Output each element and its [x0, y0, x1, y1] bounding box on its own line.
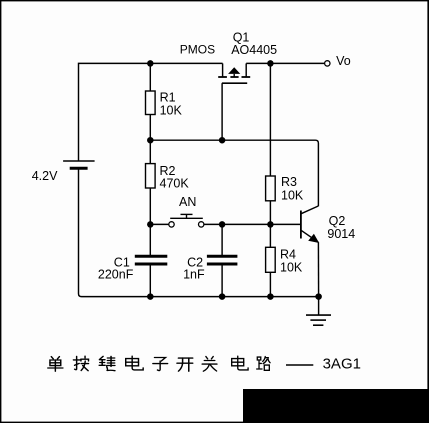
svg-text:PMOS: PMOS	[180, 43, 215, 57]
svg-text:1nF: 1nF	[183, 268, 205, 282]
svg-text:3AG1: 3AG1	[323, 356, 361, 373]
svg-text:AN: AN	[179, 195, 196, 209]
svg-text:10K: 10K	[280, 260, 303, 274]
svg-text:R4: R4	[280, 247, 296, 261]
svg-text:220nF: 220nF	[98, 268, 134, 282]
svg-text:9014: 9014	[327, 227, 355, 241]
svg-text:10K: 10K	[281, 189, 304, 203]
svg-text:R3: R3	[281, 175, 297, 189]
svg-text:AO4405: AO4405	[231, 43, 277, 57]
svg-text:10K: 10K	[160, 103, 183, 117]
svg-text:4.2V: 4.2V	[32, 169, 58, 183]
svg-text:470K: 470K	[160, 176, 190, 190]
svg-text:Vo: Vo	[336, 54, 351, 68]
svg-text:Q2: Q2	[329, 214, 346, 228]
svg-text:R1: R1	[160, 90, 176, 104]
